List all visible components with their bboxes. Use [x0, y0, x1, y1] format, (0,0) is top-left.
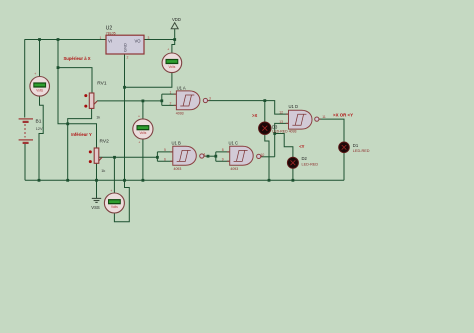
svg-text:Volts: Volts [168, 65, 175, 69]
svg-text:U1 C: U1 C [229, 141, 239, 146]
svg-text:12: 12 [279, 111, 283, 115]
svg-text:U1 B: U1 B [172, 141, 182, 146]
svg-text:+: + [34, 72, 36, 76]
svg-text:8: 8 [222, 148, 224, 152]
svg-text:D1: D1 [353, 143, 359, 148]
svg-text:9: 9 [222, 158, 224, 162]
svg-text:>X OR <Y: >X OR <Y [333, 113, 353, 118]
svg-text:78L05: 78L05 [106, 32, 116, 36]
svg-text:U2: U2 [106, 26, 113, 32]
svg-text:>X: >X [252, 113, 257, 118]
svg-text:+: + [167, 48, 169, 52]
svg-text:4093: 4093 [230, 167, 238, 171]
svg-text:RV2: RV2 [100, 139, 110, 145]
svg-text:4093: 4093 [174, 167, 182, 171]
svg-text:+: + [110, 189, 112, 193]
svg-text:Volts: Volts [36, 89, 43, 93]
svg-text:Volts: Volts [111, 205, 118, 209]
svg-text:6: 6 [164, 158, 166, 162]
svg-text:U1 A: U1 A [177, 85, 186, 90]
svg-text:+: + [138, 141, 140, 145]
svg-text:3: 3 [148, 36, 150, 40]
svg-text:1: 1 [170, 90, 172, 94]
svg-text:Inférieur Y: Inférieur Y [71, 132, 92, 137]
svg-text:LED-RED: LED-RED [353, 149, 370, 153]
svg-text:2: 2 [127, 56, 129, 60]
svg-text:2: 2 [170, 102, 172, 106]
svg-text:RV1: RV1 [97, 81, 107, 87]
svg-text:13: 13 [279, 120, 283, 124]
svg-text:VSS: VSS [91, 205, 100, 210]
svg-text:Supérieur à X: Supérieur à X [64, 56, 91, 61]
svg-text:LED-RED: LED-RED [272, 129, 288, 133]
svg-text:VO: VO [135, 39, 142, 44]
svg-text:D2: D2 [302, 156, 308, 161]
svg-text:1: 1 [100, 36, 102, 40]
svg-text:VDD: VDD [172, 17, 181, 22]
svg-text:GND: GND [123, 43, 128, 52]
svg-text:B1: B1 [36, 119, 42, 125]
svg-text:+: + [138, 115, 140, 119]
svg-text:U1 D: U1 D [289, 104, 299, 109]
svg-text:4093: 4093 [176, 111, 184, 115]
svg-text:11: 11 [322, 115, 326, 119]
svg-text:4093: 4093 [289, 129, 297, 133]
svg-text:5: 5 [164, 148, 166, 152]
svg-text:1k: 1k [101, 169, 105, 173]
svg-text:LED-RED: LED-RED [302, 162, 319, 166]
svg-text:12V: 12V [36, 127, 43, 131]
svg-text:<Y: <Y [299, 144, 304, 149]
svg-text:1k: 1k [96, 115, 100, 119]
svg-text:Volts: Volts [139, 131, 146, 135]
svg-text:VI: VI [108, 39, 112, 44]
